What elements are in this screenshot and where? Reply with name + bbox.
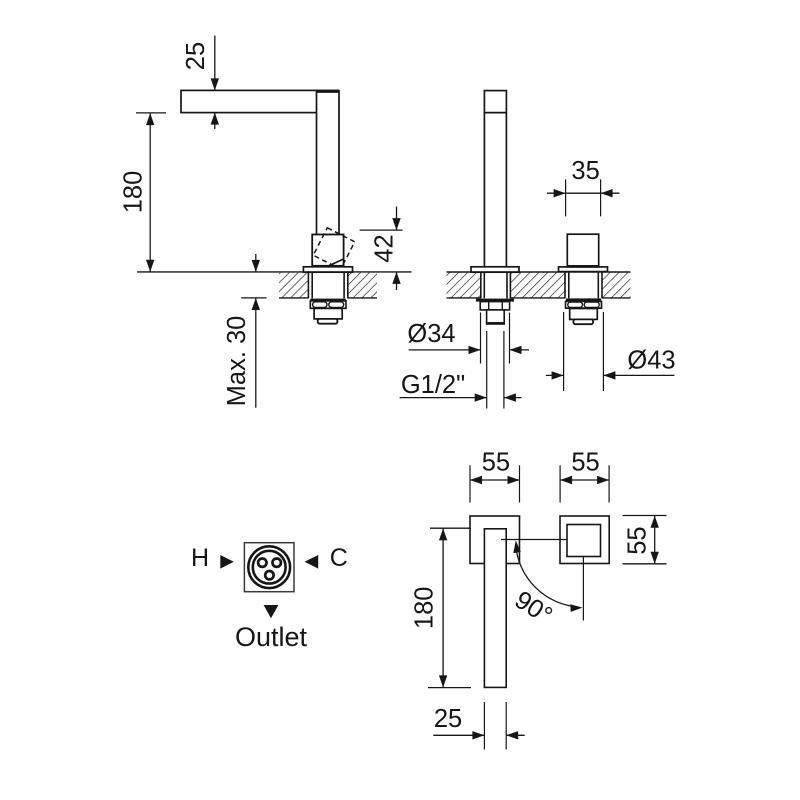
handle body (front view, right figure) bbox=[567, 234, 598, 267]
svg-text:Outlet: Outlet bbox=[235, 622, 308, 652]
swivel joint dashed rotated square bbox=[313, 228, 354, 269]
arrow H (pointing right) bbox=[220, 555, 234, 569]
spout column (front view, middle figure) bbox=[484, 91, 506, 267]
svg-text:55: 55 bbox=[482, 449, 510, 477]
flange right figure bbox=[559, 267, 608, 272]
dimension 180 (lever length, plan view) bbox=[411, 528, 471, 687]
dimension O43 bbox=[546, 312, 676, 391]
dimension 25 (spout arm height) bbox=[182, 36, 219, 130]
connection outer circle bbox=[248, 546, 290, 588]
shaft below nut right figure bbox=[570, 309, 598, 320]
svg-text:G1/2": G1/2" bbox=[401, 371, 465, 399]
svg-text:25: 25 bbox=[434, 705, 462, 733]
svg-text:55: 55 bbox=[571, 449, 599, 477]
threaded shaft middle figure bbox=[487, 310, 505, 324]
dimension 25 (lever width) bbox=[433, 702, 524, 750]
through-counter shaft left figure bbox=[308, 272, 347, 298]
outlet port circle bbox=[265, 571, 273, 579]
connection inner circle bbox=[253, 551, 286, 584]
arrow outlet (pointing down) bbox=[264, 605, 279, 618]
dimension G1/2 inch bbox=[400, 331, 522, 409]
dimension Max. 30 (countertop thickness) bbox=[223, 254, 266, 408]
connection square (plan view) bbox=[244, 543, 294, 592]
swivel joint body (solid square) bbox=[312, 235, 343, 266]
svg-text:42: 42 bbox=[370, 234, 398, 262]
dimension 55 right square bbox=[560, 449, 609, 503]
svg-text:180: 180 bbox=[120, 171, 148, 214]
countertop surface line left figure bbox=[137, 271, 412, 273]
mounting nut right figure bbox=[566, 301, 602, 308]
second handle square inner bbox=[567, 525, 601, 557]
second handle square outer (plan view) bbox=[560, 516, 609, 564]
threaded tip right figure bbox=[573, 319, 593, 324]
cold port circle bbox=[273, 559, 281, 567]
spout vertical column (side view) bbox=[316, 91, 339, 235]
center line below second square bbox=[582, 557, 584, 621]
svg-text:Ø43: Ø43 bbox=[627, 347, 675, 375]
dimension 55 left square bbox=[470, 449, 520, 503]
washer right figure bbox=[566, 298, 601, 301]
hot port circle bbox=[258, 559, 266, 567]
dimension 35 (handle width) bbox=[547, 157, 620, 216]
countertop surface line middle-right figures bbox=[447, 271, 631, 273]
svg-text:H: H bbox=[191, 544, 209, 572]
threaded tip left figure bbox=[318, 319, 338, 324]
svg-text:90°: 90° bbox=[510, 586, 558, 630]
countertop hatched band left figure bbox=[279, 273, 377, 298]
svg-text:Max. 30: Max. 30 bbox=[223, 316, 251, 407]
svg-text:Ø34: Ø34 bbox=[407, 320, 455, 348]
countertop hatched band middle-right figures bbox=[447, 273, 631, 298]
90 degree rotation arc bbox=[512, 540, 583, 612]
arrow C (pointing left) bbox=[305, 555, 319, 569]
connector line between lever and square bbox=[501, 539, 567, 541]
dimension O34 bbox=[407, 313, 529, 364]
dimension 55 vertical right bbox=[623, 516, 667, 564]
flange left figure bbox=[303, 267, 352, 272]
spout arm (side view) bbox=[181, 90, 339, 112]
through-counter shaft middle figure bbox=[481, 272, 511, 298]
handle base square (plan view) bbox=[470, 516, 520, 564]
mounting nut left figure bbox=[310, 301, 346, 309]
svg-text:55: 55 bbox=[623, 526, 651, 554]
washer middle figure bbox=[476, 299, 514, 302]
svg-text:C: C bbox=[330, 544, 348, 572]
svg-text:35: 35 bbox=[571, 157, 599, 185]
flange middle figure bbox=[471, 267, 519, 272]
dimension 180 (spout height, side view) bbox=[120, 113, 166, 272]
svg-text:25: 25 bbox=[182, 42, 210, 70]
shaft below nut left figure bbox=[314, 308, 342, 319]
through-counter shaft right figure bbox=[565, 272, 602, 298]
svg-text:180: 180 bbox=[411, 587, 439, 630]
mounting nut middle figure bbox=[480, 302, 509, 310]
washer left figure bbox=[310, 299, 345, 301]
handle lever (plan view) bbox=[484, 529, 506, 688]
dimension 42 (swivel height) bbox=[360, 207, 403, 291]
